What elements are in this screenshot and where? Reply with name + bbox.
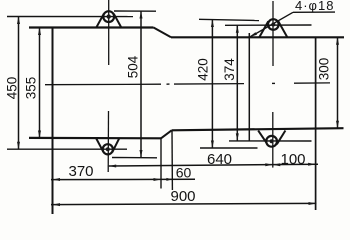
svg-text:355: 355	[24, 77, 39, 100]
svg-text:504: 504	[126, 55, 141, 78]
svg-text:300: 300	[317, 58, 332, 81]
svg-text:370: 370	[68, 163, 93, 180]
svg-text:374: 374	[222, 58, 237, 81]
svg-text:100: 100	[280, 151, 305, 168]
svg-text:4·φ18: 4·φ18	[295, 0, 334, 13]
svg-text:450: 450	[5, 77, 20, 100]
svg-text:900: 900	[170, 188, 195, 205]
svg-text:640: 640	[207, 151, 232, 168]
svg-text:420: 420	[195, 58, 210, 81]
svg-text:60: 60	[176, 165, 192, 181]
